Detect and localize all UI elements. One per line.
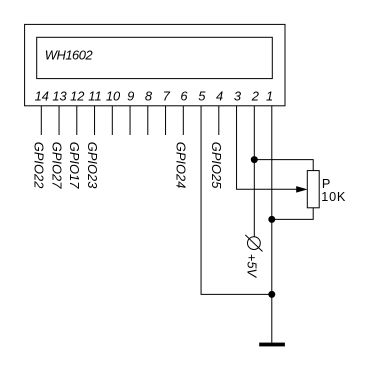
svg-text:+5V: +5V	[245, 254, 260, 279]
svg-text:GPIO24: GPIO24	[174, 142, 189, 189]
svg-text:WH1602: WH1602	[45, 48, 93, 63]
svg-text:11: 11	[88, 88, 101, 103]
svg-text:13: 13	[52, 88, 67, 103]
svg-text:GPIO23: GPIO23	[85, 142, 100, 189]
svg-text:2: 2	[251, 88, 259, 103]
svg-text:14: 14	[35, 88, 49, 103]
svg-text:8: 8	[145, 88, 153, 103]
svg-text:GPIO22: GPIO22	[32, 142, 47, 189]
svg-text:4: 4	[216, 88, 223, 103]
svg-text:12: 12	[70, 88, 84, 103]
svg-text:P: P	[322, 177, 330, 191]
svg-text:9: 9	[127, 88, 134, 103]
svg-text:10K: 10K	[321, 190, 346, 204]
svg-text:7: 7	[163, 88, 171, 103]
svg-text:6: 6	[180, 88, 188, 103]
svg-text:3: 3	[234, 88, 242, 103]
svg-text:1: 1	[266, 88, 273, 103]
svg-text:GPIO25: GPIO25	[209, 142, 224, 189]
svg-text:5: 5	[198, 88, 206, 103]
svg-text:10: 10	[106, 88, 121, 103]
svg-text:GPIO27: GPIO27	[49, 142, 64, 189]
svg-text:GPIO17: GPIO17	[67, 142, 82, 189]
